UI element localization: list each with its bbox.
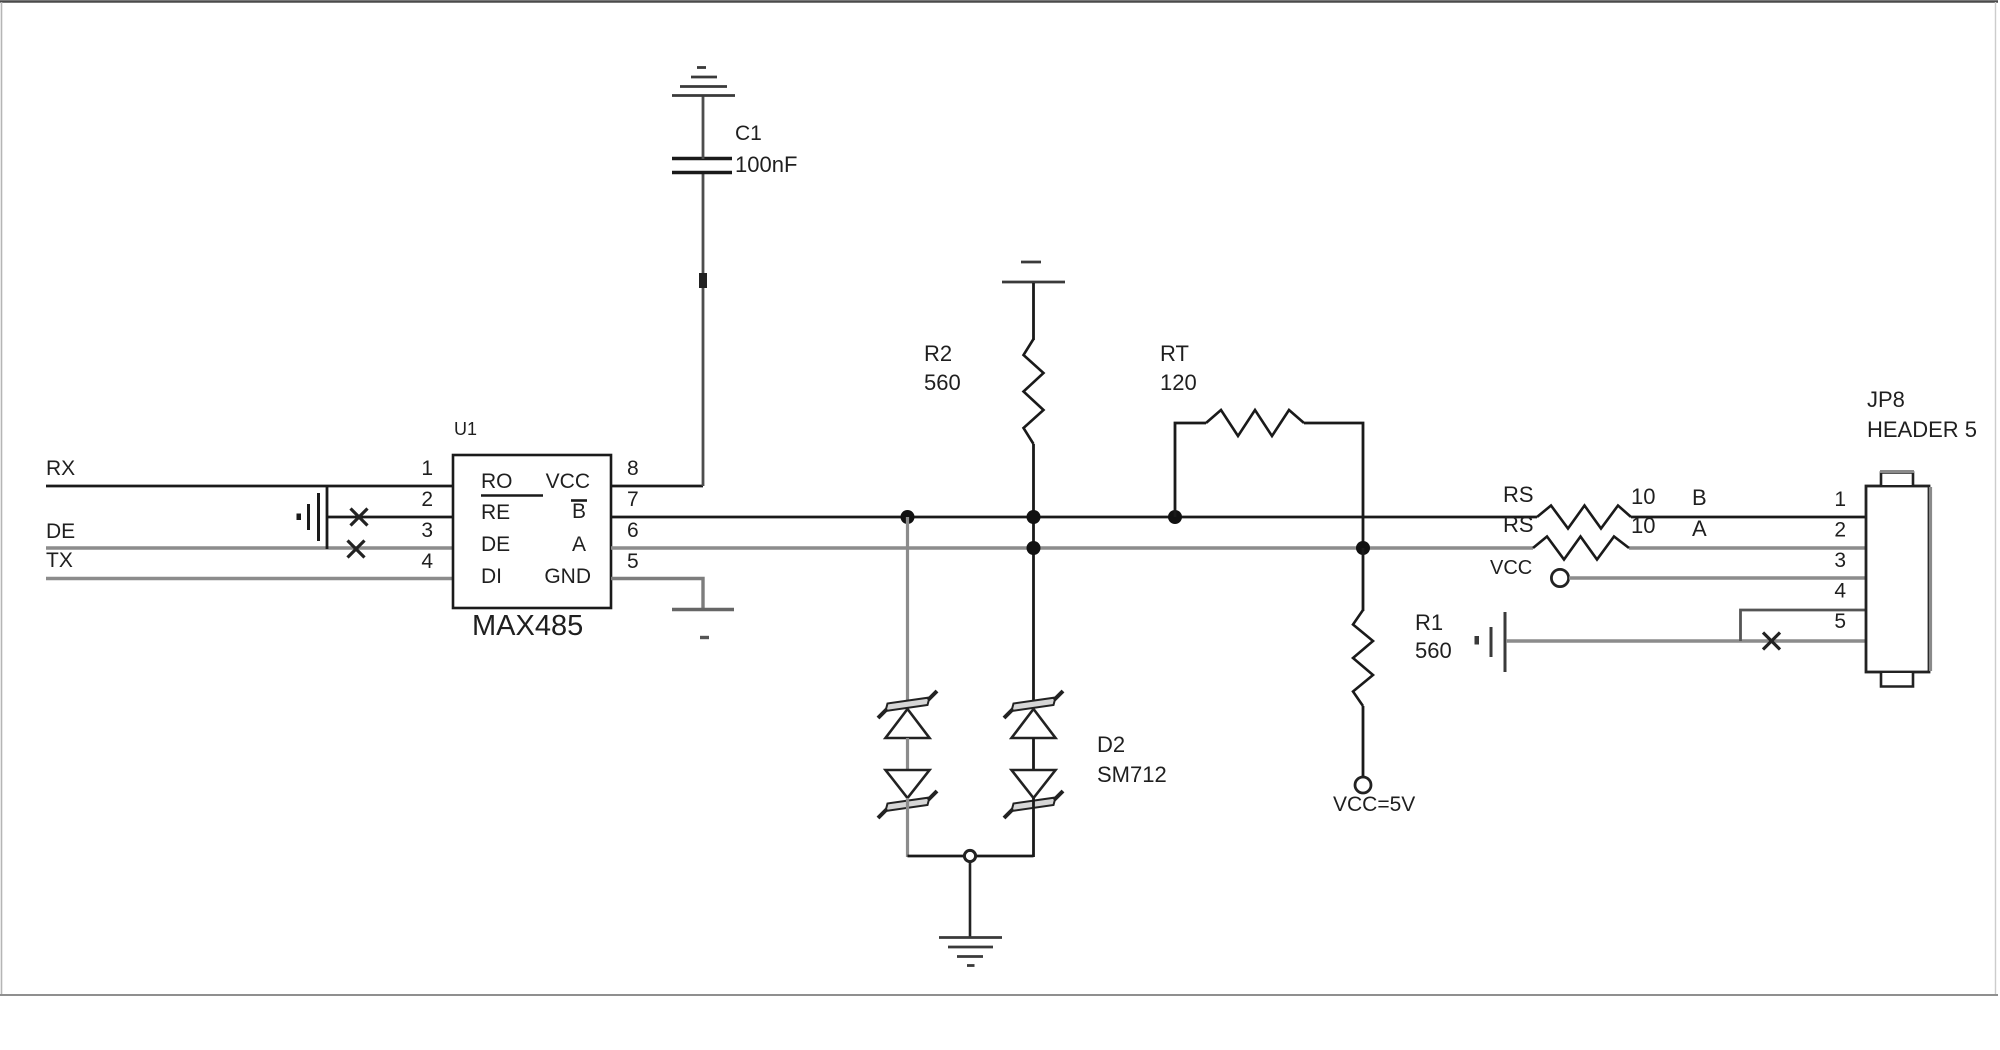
wire RT right leg down to A bus <box>1304 423 1363 548</box>
svg-text:560: 560 <box>1415 638 1452 663</box>
resistor RS (A line) <box>1533 537 1629 560</box>
svg-text:R1: R1 <box>1415 610 1443 635</box>
svg-text:2: 2 <box>1834 519 1846 542</box>
svg-text:MAX485: MAX485 <box>472 610 583 642</box>
JP8 right edge shading <box>1929 487 1932 671</box>
svg-text:RO: RO <box>481 470 513 493</box>
diode D2 left TVS lower (triangle, pointing down) <box>886 770 930 798</box>
ground below D2 <box>939 938 1002 966</box>
svg-text:GND: GND <box>544 565 591 588</box>
wire C1 to ground <box>702 96 705 159</box>
svg-text:U1: U1 <box>454 419 477 439</box>
junction B bus at R2 <box>1027 510 1041 524</box>
junction B bus at D2 left column <box>901 510 915 524</box>
svg-text:JP8: JP8 <box>1867 387 1905 412</box>
svg-text:DE: DE <box>481 533 510 556</box>
svg-text:SM712: SM712 <box>1097 762 1167 787</box>
svg-text:4: 4 <box>421 550 433 573</box>
border frame top <box>0 0 1998 3</box>
resistor RS (B line) <box>1537 506 1631 529</box>
wire ground riser to JP8 pin 4 <box>1741 610 1868 641</box>
junction A bus at R2 column <box>1027 541 1041 555</box>
svg-text:4: 4 <box>1834 580 1846 603</box>
diode D2 right TVS upper (triangle, pointing up) <box>1012 709 1056 738</box>
ground above C1 <box>672 68 735 96</box>
svg-text:RX: RX <box>46 457 75 480</box>
resistor R2 <box>1024 339 1044 444</box>
svg-text:120: 120 <box>1160 370 1197 395</box>
diode D2 right TVS lower (triangle, pointing down) <box>1012 770 1056 798</box>
svg-text:1: 1 <box>1834 488 1846 511</box>
svg-text:1: 1 <box>421 457 433 480</box>
U1 pin name B overline <box>571 499 587 502</box>
border frame left <box>1 2 3 995</box>
svg-text:TX: TX <box>46 549 73 572</box>
svg-text:10: 10 <box>1631 484 1655 509</box>
capacitor C1 <box>672 159 732 173</box>
wire U1 pin 2 stub <box>327 516 453 519</box>
border frame right <box>1995 2 1997 995</box>
connector JP8 bottom tab <box>1881 673 1913 687</box>
wire between right TVS diodes <box>1032 738 1035 770</box>
wire R2 to B bus and down to D2 right column <box>1032 444 1035 705</box>
wire right TVS to bottom rail <box>1032 798 1035 857</box>
wire ground to R2 <box>1032 283 1035 340</box>
wire RX to U1 pin 1 <box>46 485 453 488</box>
connector JP8 body <box>1866 486 1929 672</box>
svg-text:A: A <box>572 533 586 556</box>
svg-text:DE: DE <box>46 520 75 543</box>
svg-text:2: 2 <box>421 488 433 511</box>
diode D2 left TVS upper (cathode band) <box>878 691 937 718</box>
diode D2 right TVS upper (cathode band) <box>1004 691 1063 718</box>
svg-text:100nF: 100nF <box>735 152 797 177</box>
wire vertical tie pin1-pin2-pin3 <box>326 486 329 549</box>
svg-text:RS: RS <box>1503 482 1534 507</box>
wire D2 bottom rail <box>908 855 1034 858</box>
svg-text:560: 560 <box>924 370 961 395</box>
no-connect X on JP8 pin 5 wire <box>1763 633 1780 650</box>
node circle on D2 bottom rail <box>964 850 975 861</box>
svg-text:RS: RS <box>1503 512 1534 537</box>
wire net A bus (U1 pin 6 to RS) <box>611 546 1533 549</box>
svg-text:B: B <box>572 500 586 523</box>
svg-text:8: 8 <box>627 457 639 480</box>
wire between left TVS diodes <box>906 738 909 770</box>
wire A bus to R1 <box>1362 548 1365 611</box>
svg-text:RT: RT <box>1160 341 1189 366</box>
border frame bottom <box>0 994 1998 996</box>
svg-text:3: 3 <box>1834 549 1846 572</box>
ground (sideways earth) at DE tie <box>297 493 319 541</box>
wire left TVS to bottom rail <box>906 798 909 857</box>
svg-text:VCC=5V: VCC=5V <box>1333 793 1415 816</box>
junction blob on VCC wire <box>699 273 707 288</box>
U1 RE overline bar <box>481 494 543 497</box>
JP8 top tab shading <box>1880 470 1914 473</box>
wire D2 left column from B bus <box>906 517 909 705</box>
svg-text:B: B <box>1692 485 1707 510</box>
resistor R1 <box>1353 610 1373 706</box>
svg-text:HEADER 5: HEADER 5 <box>1867 417 1977 442</box>
wire U1 pin 5 to ground <box>611 579 703 609</box>
op-amp U1 MAX485 body <box>453 455 611 608</box>
wire TX to U1 pin 4 <box>46 577 453 580</box>
wire RT left leg <box>1175 423 1206 517</box>
ground (sideways earth) at JP8 <box>1475 612 1506 672</box>
svg-text:VCC: VCC <box>1490 557 1532 579</box>
svg-text:7: 7 <box>627 488 639 511</box>
junction A bus at R1 <box>1356 541 1370 555</box>
svg-text:A: A <box>1692 516 1707 541</box>
svg-text:VCC: VCC <box>546 470 590 493</box>
wire U1 pin 8 to C1 <box>611 485 703 488</box>
resistor RT <box>1206 410 1304 436</box>
ground below U1 pin 5 <box>672 610 734 638</box>
diode D2 left TVS upper (triangle, pointing up) <box>886 709 930 738</box>
wire ground to JP8 pin 5 <box>1506 639 1867 642</box>
wire DE to U1 pin 3 <box>46 546 453 549</box>
ground above R2 <box>1002 262 1065 282</box>
wire net B bus (RS to JP8 pin 1) <box>1631 516 1867 519</box>
svg-text:D2: D2 <box>1097 732 1125 757</box>
wire net A bus (RS to JP8 pin 2) <box>1629 546 1867 549</box>
VCC=5V terminal circle <box>1355 777 1371 793</box>
junction B bus at RT <box>1168 510 1182 524</box>
VCC terminal circle at JP8 pin 3 <box>1551 569 1568 586</box>
diode D2 right TVS lower (cathode band) <box>1004 791 1063 818</box>
no-connect X on pin 2 wire <box>351 509 368 526</box>
wire net B bus (U1 pin 7 to RS) <box>611 516 1537 519</box>
svg-text:R2: R2 <box>924 341 952 366</box>
no-connect X on pin 3 wire <box>348 541 365 558</box>
svg-text:DI: DI <box>481 565 502 588</box>
svg-text:5: 5 <box>1834 610 1846 633</box>
svg-text:10: 10 <box>1631 513 1655 538</box>
diode D2 left TVS lower (cathode band) <box>878 791 937 818</box>
wire D2 rail to ground <box>969 862 972 937</box>
svg-text:C1: C1 <box>735 122 762 145</box>
svg-text:RE: RE <box>481 501 510 524</box>
svg-text:6: 6 <box>627 519 639 542</box>
wire R1 to VCC terminal <box>1362 706 1365 777</box>
svg-text:5: 5 <box>627 550 639 573</box>
wire VCC to JP8 pin 3 <box>1569 576 1867 579</box>
connector JP8 top tab <box>1881 473 1913 486</box>
svg-text:3: 3 <box>421 519 433 542</box>
